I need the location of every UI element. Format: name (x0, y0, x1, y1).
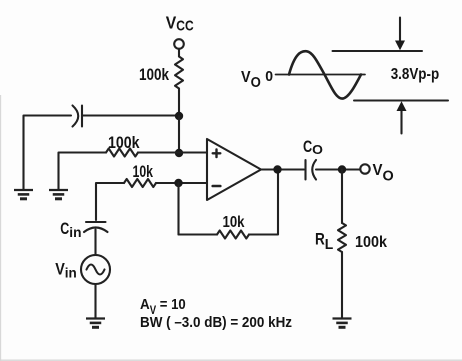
svg-text:CO: CO (303, 138, 323, 157)
waveform top peak reference line (333, 50, 423, 52)
resistor R1 100k (VCC pull-up) (175, 57, 183, 89)
svg-text:Cin: Cin (60, 220, 81, 240)
wire VCC terminal to R1 (178, 49, 180, 57)
wire R3 to op-amp -input (156, 182, 207, 184)
wire op-amp output to CO (261, 168, 304, 170)
wire Cin up to R3 (96, 183, 124, 220)
capacitor CO (straight plate left, curved right) (304, 160, 306, 180)
svg-text:Vin: Vin (55, 261, 77, 281)
capacitor C1 (bypass, curved plate left) (73, 106, 79, 127)
wire Cin to Vin (94, 230, 96, 256)
node bias junction (175, 112, 183, 120)
ground (R2 return) (49, 189, 68, 191)
ground (Vin) (86, 317, 105, 319)
wire R4 up to output node (249, 170, 278, 235)
node output junction (273, 165, 281, 173)
waveform zero baseline (276, 74, 366, 76)
wire Vin to ground (94, 284, 96, 319)
resistor R4 10k (feedback) (217, 231, 249, 239)
waveform bottom peak reference line (354, 100, 448, 102)
op-amp -input pin mark (213, 185, 221, 188)
waveform output sine (289, 51, 361, 98)
wire C1 to bias node (83, 114, 179, 116)
wire RL branch down (341, 170, 343, 224)
svg-text:100k: 100k (108, 134, 140, 152)
terminal VCC (174, 39, 184, 49)
resistor RL 100k (load) (338, 223, 346, 252)
resistor R3 10k (-input series) (124, 179, 156, 187)
wire RL to ground (341, 252, 343, 319)
ground (C1 return) (14, 189, 33, 191)
svg-text:100k: 100k (139, 66, 170, 84)
wire CO to VO terminal (316, 168, 360, 170)
svg-text:10k: 10k (133, 163, 154, 181)
svg-text:10k: 10k (223, 214, 245, 231)
node +input junction (175, 149, 183, 157)
scan artifact: faint left edge (0, 95, 2, 361)
arrow up toward bottom line (400, 111, 402, 134)
svg-text:VCC: VCC (166, 13, 194, 35)
svg-text:VO: VO (241, 69, 261, 91)
source Vin (AC sine source) (81, 255, 110, 284)
wire ground up to R2 (59, 153, 107, 191)
svg-text:VO: VO (373, 162, 394, 184)
op-amp U1 triangle (207, 139, 261, 200)
svg-text:0: 0 (265, 68, 273, 85)
resistor R2 100k (+input) (106, 149, 138, 157)
wire -input node down to feedback (177, 183, 179, 235)
capacitor Cin (straight plate top, curved below) (86, 221, 106, 223)
ground (RL) (333, 317, 352, 319)
node RL branch (338, 165, 346, 173)
svg-text:BW ( –3.0 dB) = 200 kHz: BW ( –3.0 dB) = 200 kHz (140, 315, 292, 331)
op-amp +input pin mark (213, 152, 221, 154)
wire bias node down to +input (178, 116, 180, 153)
arrow down toward top line (399, 18, 401, 43)
wire feedback bottom left (179, 233, 218, 235)
svg-text:100k: 100k (355, 234, 387, 251)
scan artifact: faint bottom edge (0, 359, 462, 361)
wire C1 to ground (24, 116, 72, 191)
svg-text:3.8Vp-p: 3.8Vp-p (391, 66, 440, 83)
terminal VO (360, 164, 369, 173)
wire R2 to op-amp +input (138, 151, 207, 153)
node -input junction (174, 179, 182, 187)
wire R1 to bias node (178, 89, 180, 116)
svg-text:RL: RL (315, 230, 333, 254)
